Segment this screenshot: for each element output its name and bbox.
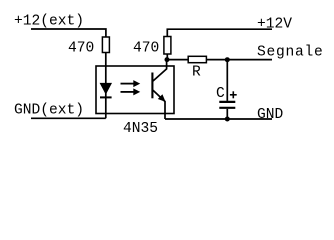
transistor Q1 collector — [153, 60, 167, 81]
node junction dot 1 — [165, 57, 170, 62]
svg-text:4N35: 4N35 — [123, 121, 158, 137]
capacitor C bottom plate — [219, 107, 235, 109]
GND rail wire — [165, 118, 272, 120]
wire +12(ext) lead to R1 — [31, 29, 106, 37]
optocoupler box 4N35 — [96, 66, 174, 114]
LED D1 cathode bar — [100, 96, 112, 98]
wire capacitor to GND rail — [226, 109, 228, 119]
capacitor C plus polarity mark — [230, 91, 237, 98]
wire R2 top to +12V rail — [167, 29, 272, 36]
svg-text:GND: GND — [257, 107, 284, 123]
node junction dot 3 — [225, 117, 230, 122]
svg-text:470: 470 — [133, 41, 159, 57]
svg-text:470: 470 — [68, 41, 94, 57]
capacitor C top plate — [219, 101, 235, 103]
LED D1 triangle — [100, 83, 111, 93]
resistor R1 470 — [102, 37, 109, 53]
wire GND(ext) lead — [31, 117, 106, 119]
node junction dot 2 — [225, 57, 230, 62]
wire node to capacitor C — [226, 60, 228, 101]
wire R2 bottom to node — [166, 54, 168, 60]
resistor R — [188, 56, 206, 62]
svg-text:R: R — [192, 65, 201, 81]
transistor Q1 base bar — [151, 73, 153, 99]
transistor Q1 emitter — [153, 90, 165, 119]
svg-text:+12V: +12V — [257, 16, 292, 32]
svg-text:+12(ext): +12(ext) — [14, 14, 84, 30]
transistor Q1 emitter arrowhead — [158, 94, 166, 102]
svg-text:C: C — [216, 86, 225, 102]
light arrow 1 — [121, 80, 141, 87]
light arrow 2 — [121, 88, 141, 95]
wire R1 bottom through LED to GND(ext) — [105, 53, 107, 119]
svg-text:GND(ext): GND(ext) — [14, 103, 84, 119]
wire node to resistor R — [167, 59, 188, 61]
svg-text:Segnale: Segnale — [257, 45, 324, 61]
resistor R2 470 — [164, 37, 171, 55]
wire R to Segnale — [206, 59, 272, 61]
